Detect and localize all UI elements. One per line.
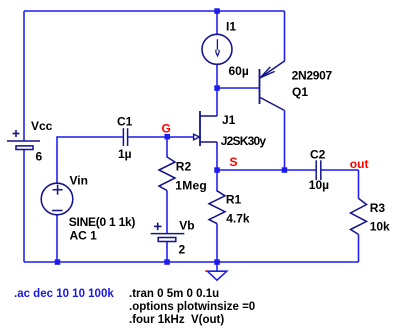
battery Vb — [151, 223, 185, 242]
wire R2 top lead — [166, 137, 168, 158]
svg-text:Vcc: Vcc — [31, 119, 53, 133]
svg-text:SINE(0 1 1k): SINE(0 1 1k) — [69, 215, 136, 229]
wire top rail — [24, 10, 285, 12]
wire Vin bottom to rail — [56, 215, 58, 263]
svg-text:R1: R1 — [226, 193, 242, 207]
svg-text:I1: I1 — [226, 20, 236, 34]
svg-text:AC 1: AC 1 — [70, 228, 98, 242]
junction node Vin bottom — [55, 259, 61, 265]
capacitor C1 — [123, 128, 127, 146]
wire I1 bottom to node — [216, 64, 218, 88]
junction node Vb bottom — [164, 259, 170, 265]
ground marker dot — [205, 270, 207, 272]
svg-text:G: G — [162, 122, 171, 136]
junction node G — [165, 134, 171, 140]
junction node S — [214, 167, 220, 173]
junction node top rail / I1 — [214, 8, 220, 14]
svg-text:10µ: 10µ — [309, 178, 329, 192]
svg-text:2N2907: 2N2907 — [292, 69, 333, 83]
current source I1 — [202, 34, 232, 64]
wire Q1 emitter vertical — [284, 11, 286, 62]
svg-text:60µ: 60µ — [229, 64, 249, 78]
wire S to C2 — [217, 169, 316, 171]
wire R1 top lead — [216, 170, 218, 192]
wire R1 bottom lead — [216, 224, 218, 262]
wire I1 top stub — [216, 11, 218, 34]
svg-text:.four 1kHz V(out): .four 1kHz V(out) — [129, 314, 224, 326]
svg-text:6: 6 — [36, 150, 43, 164]
junction node ground — [214, 259, 220, 265]
resistor R3 — [351, 198, 367, 234]
ground — [207, 262, 226, 280]
svg-text:.ac dec 10 10 100k: .ac dec 10 10 100k — [14, 288, 114, 300]
battery Vcc — [7, 130, 40, 150]
junction node I1 / base / drain — [214, 85, 220, 91]
wire R2 bottom to Vb — [166, 191, 168, 234]
svg-text:J2SK30y: J2SK30y — [221, 134, 267, 148]
wire JFET source down to S — [216, 142, 218, 170]
svg-text:C2: C2 — [310, 147, 326, 161]
wire R3 bottom lead — [358, 234, 360, 262]
svg-text:S: S — [230, 155, 238, 169]
voltage source Vin — [41, 183, 73, 215]
svg-text:1µ: 1µ — [118, 147, 132, 161]
svg-text:out: out — [350, 157, 369, 171]
capacitor C2 — [316, 160, 321, 180]
wire Q1 collector vertical — [284, 111, 286, 171]
wire C1 to G to JFET gate — [128, 136, 194, 138]
wire Vin top to C1 — [57, 137, 123, 184]
wire R3 top lead — [358, 170, 360, 198]
svg-text:2: 2 — [179, 243, 186, 257]
svg-text:1Meg: 1Meg — [175, 178, 207, 192]
svg-text:10k: 10k — [370, 220, 390, 234]
svg-text:J1: J1 — [222, 113, 236, 127]
wire bottom rail — [24, 261, 359, 263]
wire below Vcc to bottom rail — [23, 150, 25, 262]
wire Vb bottom to rail — [166, 242, 168, 263]
svg-text:Vin: Vin — [70, 174, 88, 188]
svg-text:C1: C1 — [117, 114, 133, 128]
svg-text:R3: R3 — [370, 201, 386, 215]
wire JFET drain up — [216, 88, 218, 116]
wire base of Q1 — [217, 87, 259, 89]
wire left rail (Vcc top) — [23, 11, 25, 141]
resistor R1 — [209, 191, 225, 224]
resistor R2 — [159, 157, 175, 191]
svg-text:R2: R2 — [176, 159, 192, 173]
svg-text:Vb: Vb — [179, 218, 194, 232]
svg-text:4.7k: 4.7k — [226, 211, 250, 225]
svg-text:.options plotwinsize =0: .options plotwinsize =0 — [129, 301, 255, 313]
transistor J1 (N-JFET) — [194, 111, 217, 146]
junction node collector / C2 — [282, 167, 288, 173]
transistor Q1 (PNP) — [260, 61, 285, 111]
svg-text:Q1: Q1 — [292, 85, 308, 99]
wire C2 to R3 corner — [321, 169, 359, 171]
svg-text:.tran 0 5m 0 0.1u: .tran 0 5m 0 0.1u — [129, 288, 219, 300]
